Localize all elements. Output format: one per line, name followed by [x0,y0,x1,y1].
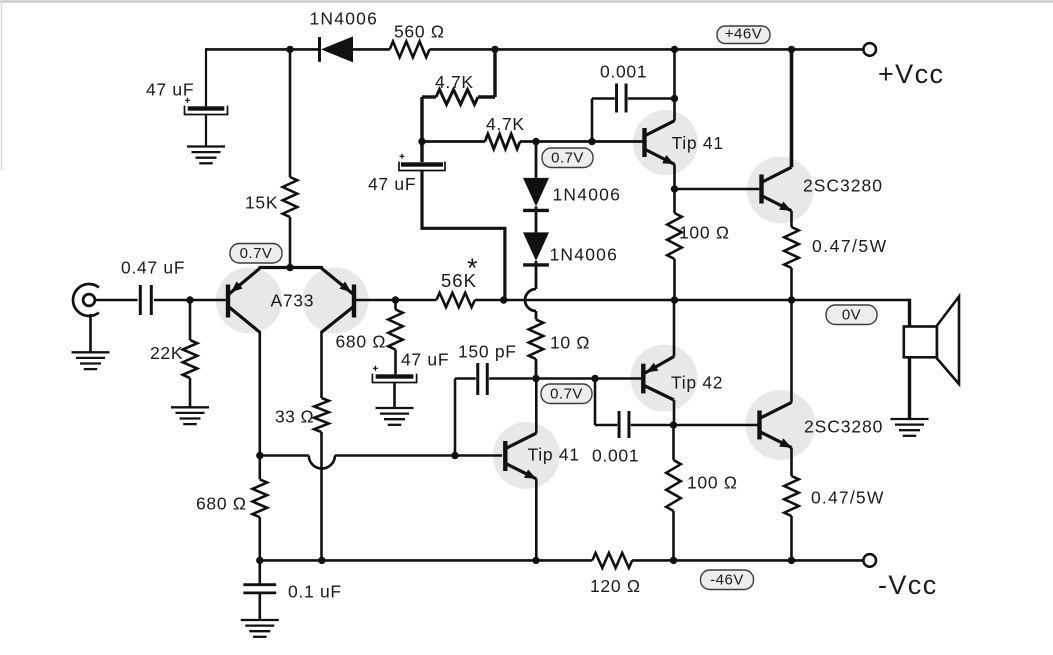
node C8 branch [591,375,598,382]
svg-text:0.7V: 0.7V [551,150,584,167]
node C5 branch [588,138,595,145]
wire input to C2 [95,299,138,302]
capacitor C2 0.47 uF [140,285,151,315]
svg-text:0.001: 0.001 [600,62,647,82]
label +Vcc [878,59,944,89]
node Q3 collector C5 [671,95,678,102]
net badge +46V [717,26,770,44]
wire input connector to ground [89,314,92,352]
wire Q5 emitter to mid rail [673,300,676,357]
svg-text:2SC3280: 2SC3280 [804,417,883,437]
node top rail x290 [286,46,293,53]
node bias rail x260 [256,452,263,459]
label R1 560 ohm [394,22,445,42]
node A733 emitter junction [286,264,293,271]
wire R6 right segment [478,95,495,98]
wire Q7 collector up [535,379,538,434]
svg-text:0.47/5W: 0.47/5W [812,236,888,256]
svg-text:680 Ω: 680 Ω [196,494,247,514]
svg-text:680 Ω: 680 Ω [336,332,387,352]
svg-text:1N4006: 1N4006 [310,9,379,29]
badge 0.7V at Q3 base [542,148,593,168]
ground input [72,352,110,369]
wire Q5 collector to Q6 base [674,424,759,427]
wire Q7 emitter to bottom rail [535,479,538,561]
label R3 22K [150,343,183,363]
svg-text:0.001: 0.001 [592,446,639,466]
svg-text:1N4006: 1N4006 [550,245,619,265]
capacitor C3 47 uF [372,366,416,383]
wire top rail to C1 [205,48,207,106]
transistor Q3 Tip 41 top highlight [633,110,698,175]
svg-text:2SC3280: 2SC3280 [803,176,883,196]
label Q4 2SC3280 [803,176,883,196]
wire +Vcc rail left segment [206,48,318,51]
wire Q2 base to R5 [356,299,436,302]
wire Q3 collector to top rail [673,49,676,120]
label C1 47 uF [146,80,194,100]
wire hop to R8 [535,311,538,320]
wire node to D2 [535,142,538,178]
wire +Vcc rail right segment [430,48,864,51]
wire bias rail right [335,454,502,457]
label D2 1N4006 [553,185,622,205]
ground R3 22K [171,407,209,424]
svg-text:+46V: +46V [725,26,762,43]
ground C7 [241,620,279,637]
node top rail x791 [788,46,795,53]
svg-text:10 Ω: 10 Ω [550,333,590,353]
label C5 0.001 [600,62,647,82]
node mid rail x674 [671,296,678,303]
node R9 bottom rail [318,557,325,564]
ground speaker [891,419,929,436]
resistor R6 4.7K [436,90,478,105]
node mid rail x504 [500,296,507,303]
net badge -46V [701,570,754,590]
diode D3 1N4006 [523,232,549,265]
node input bias junction [186,296,193,303]
node C6 bias rail [451,452,458,459]
resistor R3 22K [183,301,198,407]
svg-text:Tip 41: Tip 41 [528,445,580,465]
ground C3 [376,408,414,425]
label Q5 Tip 42 [671,373,723,393]
label C4 47 uF [368,174,416,194]
terminal +Vcc [863,43,876,56]
svg-text:33 Ω: 33 Ω [275,407,314,427]
wire D2 to D3 [535,210,538,232]
svg-text:47 uF: 47 uF [146,80,194,100]
svg-text:0.47/5W: 0.47/5W [811,488,885,508]
wire Q3 emitter down [673,164,676,213]
svg-text:100 Ω: 100 Ω [687,473,738,493]
connector J1 input [73,284,99,316]
label R2 15K [245,193,278,213]
transistor Q3 Tip 41 top [645,121,675,165]
diode D1 1N4006 [320,36,354,62]
svg-text:560 Ω: 560 Ω [394,22,445,42]
resistor R9 33 ohm [314,398,329,432]
wire R8 to Q7 node [535,359,538,379]
wire Q3 to Q4 base [675,188,760,191]
svg-text:A733: A733 [271,291,315,311]
label R10 680 ohm [196,494,247,514]
wire C2 to Q1 base [154,299,226,302]
resistor R14 100 ohm [666,425,681,560]
wire -Vcc rail right segment [632,559,863,562]
label C6 150 pF [458,342,517,362]
resistor R4 680 ohm [388,300,403,374]
transistor Q1 A733 left highlight [216,268,282,334]
wire bias rail left [260,454,309,457]
wire Q7 node to C6 [489,377,536,380]
wire R2 to A733 emitters [289,217,292,268]
label R5 56K [441,270,477,291]
wire C3 to ground [393,383,396,408]
svg-text:4.7K: 4.7K [435,72,474,92]
svg-text:100 Ω: 100 Ω [679,223,730,243]
speaker LS1 [904,297,959,385]
label R6 4.7K [435,72,474,92]
label Q7 Tip 41 [528,445,580,465]
net badge 0V [826,305,877,325]
wire Q4 emitter to R13 [790,211,793,227]
transistor Q7 Tip 41 bottom [505,433,536,479]
wire R9 to bottom rail [320,432,323,560]
label C2 0.47 uF [121,258,185,278]
svg-text:*: * [467,253,478,283]
wire C6 to bias rail [455,379,476,456]
node diode column top [532,138,539,145]
svg-text:0.7V: 0.7V [550,386,583,403]
node mid rail x791 [788,296,795,303]
label C8 0.001 [592,446,639,466]
svg-text:0V: 0V [842,307,861,324]
svg-text:Tip 42: Tip 42 [671,373,723,393]
wire Q1 collector down [258,331,261,456]
wire R13 to mid rail [790,268,793,300]
node bottom rail x674 [670,557,677,564]
label -Vcc [878,570,938,600]
wire R6 to C4 node [422,97,436,142]
wire hop over mid rail [525,289,536,311]
label R8 10 ohm [550,333,590,353]
label R12 100 ohm [679,223,730,243]
node bottom rail x791 [788,557,795,564]
transistor Q6 2SC3280 bottom [760,402,792,447]
wire C7 to ground [258,593,261,620]
wire -Vcc rail left segment [260,559,593,562]
wire Q6 collector to mid rail [790,300,793,402]
wire top rail to R2 15K [289,49,292,177]
resistor R10 680 ohm [253,456,268,561]
node top rail x495 [491,46,498,53]
resistor R11 120 ohm [592,553,632,568]
wire C4 to mid rail [422,171,505,300]
label D1 1N4006 [310,9,379,29]
wire Q2 collector down [320,331,323,398]
label C7 0.1 uF [288,582,342,602]
wire R15 to bottom rail [790,516,793,560]
capacitor C8 0.001 [595,379,674,439]
label R5 asterisk [467,253,478,283]
wire Q5 collector to node [673,400,676,425]
node bottom rail x536 [532,557,539,564]
wire D3 to hop [535,265,538,289]
transistor Q4 2SC3280 top highlight [747,157,814,224]
node top rail x674 [671,46,678,53]
wire R12 to mid rail [673,259,676,300]
capacitor C7 0.1 uF [243,585,276,593]
svg-text:15K: 15K [245,193,278,213]
wire bias rail hop [309,456,335,469]
svg-text:22K: 22K [150,343,183,363]
svg-text:1N4006: 1N4006 [553,185,622,205]
transistor Q1 A733 left [228,268,260,332]
transistor Q4 2SC3280 top [762,167,792,211]
node bias divider [418,138,425,145]
node Q3 emitter / Q4 base [671,185,678,192]
label Q3 Tip 41 [672,133,724,153]
wire diode to R 560 [353,48,390,51]
transistor Q2 A733 right highlight [303,268,369,334]
wire C1 to ground [205,115,207,146]
capacitor C4 47 uF [399,142,445,171]
resistor R15 0.47/5W [784,476,799,516]
wire Q7 node to Q5 base [536,377,641,380]
transistor Q6 2SC3280 bottom highlight [746,390,816,460]
resistor R1 560 ohm [390,41,430,57]
wire mid rail R5 to speaker [475,299,910,302]
wire bottom rail to C7 [258,560,261,583]
svg-text:-Vcc: -Vcc [878,570,938,600]
svg-text:0.7V: 0.7V [240,245,273,262]
capacitor C5 0.001 [592,84,675,142]
node Q7 collector junction [532,375,539,382]
wire Q4 collector to top rail [790,49,794,167]
transistor Q7 Tip 41 bottom highlight [493,422,560,489]
resistor R5 56K [436,293,474,307]
label R4 680 ohm [336,332,387,352]
label A733 [271,291,315,311]
wire top rail down x495 [493,49,496,97]
transistor Q5 Tip 42 highlight [631,345,698,412]
label R11 120 ohm [590,576,641,596]
node bottom rail x260 [256,557,263,564]
wire A733 emitter bridge [259,266,324,269]
ground C1 [187,147,225,164]
label C3 47 uF [401,350,449,370]
transistor Q5 Tip 42 [643,357,674,401]
label R9 33 ohm [275,407,314,427]
label D3 1N4006 [550,245,619,265]
svg-text:47 uF: 47 uF [368,174,416,194]
svg-text:0.47 uF: 0.47 uF [121,258,185,278]
label Q6 2SC3280 [804,417,883,437]
wire R7 to Q3 base [520,140,644,143]
resistor R12 100 ohm [667,213,682,259]
node Q5 collector junction [670,421,677,428]
diode D2 1N4006 [523,178,549,211]
wire Q6 emitter to R15 [790,448,793,476]
label R14 100 ohm [687,473,738,493]
label R7 4.7K [486,114,525,134]
wire speaker to ground [908,357,911,419]
terminal -Vcc [863,554,876,567]
badge 0.7V at A733 [230,244,282,264]
resistor R13 0.47/5W [784,227,799,268]
svg-text:+Vcc: +Vcc [878,59,944,89]
svg-text:120 Ω: 120 Ω [590,576,641,596]
svg-text:150 pF: 150 pF [458,342,517,362]
svg-text:4.7K: 4.7K [486,114,525,134]
badge 0.7V at Q7 [541,384,592,404]
svg-text:47 uF: 47 uF [401,350,449,370]
label R13 0.47/5W [812,236,888,256]
resistor R8 10 ohm [529,320,544,360]
label R15 0.47/5W [811,488,885,508]
wire mid rail to speaker [908,299,911,327]
transistor Q2 A733 right [322,268,355,332]
resistor R7 4.7K [422,134,520,149]
svg-text:Tip 41: Tip 41 [672,133,724,153]
svg-text:-46V: -46V [710,572,744,589]
resistor R2 15K [283,177,298,217]
capacitor C6 150 pF [478,363,488,395]
svg-text:0.1 uF: 0.1 uF [288,582,342,602]
capacitor C1 47 uF [185,98,228,115]
node Q2 base junction [392,296,399,303]
